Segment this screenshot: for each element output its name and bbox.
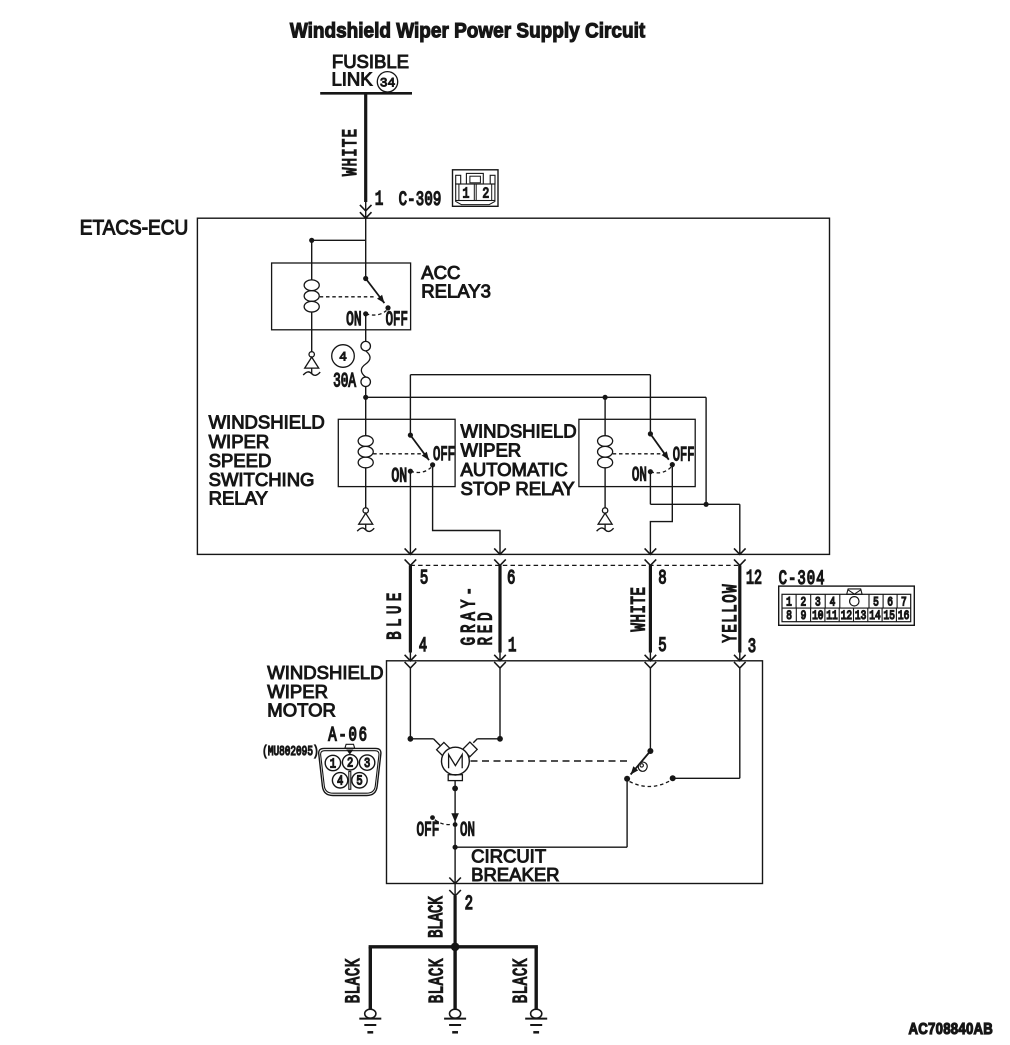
svg-text:14: 14 xyxy=(869,610,881,624)
svg-text:AUTOMATIC: AUTOMATIC xyxy=(461,459,568,480)
connector C-304 dashed line xyxy=(410,564,739,566)
svg-text:OFF: OFF xyxy=(433,445,455,467)
connector arrows A-06 pin 4 xyxy=(405,655,417,661)
junction: yellow net node xyxy=(704,502,709,507)
svg-text:3: 3 xyxy=(748,637,756,659)
ACC relay ON contact xyxy=(363,311,368,316)
svg-text:5: 5 xyxy=(658,636,666,658)
connector arrows A-06 pin 5 xyxy=(645,655,657,661)
svg-text:8: 8 xyxy=(658,568,666,590)
body ground right xyxy=(531,1009,542,1018)
svg-text:3: 3 xyxy=(815,596,821,610)
connector arrows C-304 pin 8 xyxy=(645,548,657,554)
connector arrows C-304 pin 6 xyxy=(494,548,506,554)
svg-text:7: 7 xyxy=(901,596,907,610)
wire: run contact to pin 3 xyxy=(673,777,740,779)
svg-text:RELAY: RELAY xyxy=(209,488,268,509)
wire: right relay coil to ground xyxy=(604,468,606,508)
left relay switch pivot xyxy=(408,433,413,438)
circled 4 (fuse number) xyxy=(332,345,355,368)
right relay switch blade xyxy=(650,434,668,460)
svg-text:9: 9 xyxy=(801,610,807,624)
wire: harness (thick) xyxy=(409,565,412,652)
svg-text:4: 4 xyxy=(830,596,836,610)
ACC relay travel arc xyxy=(366,311,387,316)
svg-text:SPEED: SPEED xyxy=(209,450,272,471)
svg-text:C-304: C-304 xyxy=(779,569,825,591)
svg-text:ON: ON xyxy=(391,466,407,488)
svg-text:WINDSHIELD: WINDSHIELD xyxy=(267,662,383,683)
svg-text:12: 12 xyxy=(746,568,762,590)
wire: into wiper motor connector xyxy=(649,653,651,661)
wire: rail to right relay coil xyxy=(604,397,606,436)
wire: ACC coil to ground xyxy=(311,312,313,352)
svg-text:WIPER: WIPER xyxy=(209,431,270,452)
right relay travel arc xyxy=(650,467,671,473)
connector arrows C-304 pin 12 xyxy=(734,548,746,554)
node: motor terminal right xyxy=(497,736,503,742)
wire: fusible link to C-309 (thick) xyxy=(364,93,367,202)
wire: yellow net horizontal xyxy=(650,503,739,505)
wire: yellow net to pin 12 xyxy=(739,504,741,554)
wire: breaker net to auto-stop contact xyxy=(455,846,627,848)
fusible link bus bar xyxy=(320,92,412,95)
svg-text:34: 34 xyxy=(380,75,396,90)
relay box windshield wiper speed switching relay xyxy=(338,419,455,486)
wire: rail corner down xyxy=(705,397,707,504)
svg-text:C-309: C-309 xyxy=(399,190,442,212)
wire: breaker output to pin 2 xyxy=(454,884,456,897)
svg-text:BLACK: BLACK xyxy=(511,958,533,1003)
wire: ground bus xyxy=(369,945,538,948)
svg-text:2: 2 xyxy=(482,185,489,202)
connector C-309 face icon xyxy=(453,170,499,207)
auto-stop cam follower xyxy=(638,762,647,771)
svg-text:2: 2 xyxy=(465,894,473,916)
wire: harness (thick) xyxy=(649,565,652,652)
node: branch to ACC relay coil xyxy=(309,238,314,243)
circuit breaker moving contact arrow xyxy=(451,813,459,822)
node: below motor xyxy=(452,786,458,792)
motor lower terminal xyxy=(448,775,462,781)
connector arrows A-06 pin 1 xyxy=(494,655,506,661)
left relay actuating dashed link xyxy=(373,453,425,455)
svg-text:6: 6 xyxy=(887,596,893,610)
svg-text:BREAKER: BREAKER xyxy=(471,864,559,885)
svg-text:WINDSHIELD: WINDSHIELD xyxy=(209,412,325,433)
auto-stop switch pivot xyxy=(647,748,653,754)
ACC relay coil xyxy=(304,280,319,291)
connector arrows C-309 xyxy=(360,205,372,211)
fusible link number 34 xyxy=(377,72,397,92)
ACC relay OFF contact xyxy=(385,305,390,310)
wire: pin 1 to motor xyxy=(499,668,501,739)
svg-text:ETACS-ECU: ETACS-ECU xyxy=(80,217,188,240)
svg-text:OFF: OFF xyxy=(673,445,695,467)
wire: left relay OFF jog to pin 6 xyxy=(433,465,500,555)
auto-stop switch run contact B xyxy=(670,775,676,781)
wire: into wiper motor connector xyxy=(499,653,501,661)
svg-text:1: 1 xyxy=(462,185,469,202)
svg-text:WIPER: WIPER xyxy=(461,440,522,461)
ETACS-ECU box xyxy=(197,218,829,554)
svg-text:5: 5 xyxy=(873,596,879,610)
svg-text:2: 2 xyxy=(347,755,353,771)
svg-text:12: 12 xyxy=(841,610,852,624)
relay box ACC RELAY3 xyxy=(272,263,411,330)
svg-text:RED: RED xyxy=(476,612,498,645)
junction: fuse output node xyxy=(363,395,368,400)
left relay travel arc xyxy=(410,468,431,473)
relay box windshield wiper automatic stop relay xyxy=(579,419,695,486)
wire: pivot rail to right relay switch xyxy=(649,375,651,434)
fusible link element (circle-wave-circle) xyxy=(361,341,371,351)
svg-text:11: 11 xyxy=(826,610,838,624)
ground (left relay coil) xyxy=(363,508,368,513)
svg-text:1: 1 xyxy=(330,756,336,772)
windshield wiper motor box xyxy=(387,661,763,884)
wire: pivot rail (top) xyxy=(410,374,650,376)
svg-text:BLACK: BLACK xyxy=(427,958,449,1003)
left relay ON contact xyxy=(408,469,413,474)
svg-text:(MU802095): (MU802095) xyxy=(262,744,318,760)
svg-text:3: 3 xyxy=(364,756,370,772)
right relay ON contact xyxy=(648,469,653,474)
svg-text:1: 1 xyxy=(375,189,383,211)
svg-text:BLACK: BLACK xyxy=(427,896,449,938)
svg-text:5: 5 xyxy=(356,773,362,789)
circuit breaker OFF contact xyxy=(430,815,435,820)
motor M1 (windshield wiper motor) xyxy=(442,747,470,775)
mechanical link motor to auto-stop switch (dashed) xyxy=(471,760,632,762)
svg-text:LINK: LINK xyxy=(332,69,374,90)
svg-text:WHITE: WHITE xyxy=(341,129,363,176)
svg-text:OFF: OFF xyxy=(386,310,408,332)
connector arrows pin 2 xyxy=(449,878,461,884)
svg-text:WHITE: WHITE xyxy=(629,587,651,631)
node: motor terminal left xyxy=(408,736,414,742)
connector A-06 face icon xyxy=(319,748,381,795)
motor brush terminal right xyxy=(463,742,478,757)
svg-text:AC708840AB: AC708840AB xyxy=(909,1021,994,1038)
svg-text:5: 5 xyxy=(420,568,428,590)
wire: supply rail (fuse output) xyxy=(366,396,706,398)
circuit breaker ON contact xyxy=(453,822,458,827)
ACC relay switch pivot xyxy=(363,276,368,281)
svg-text:16: 16 xyxy=(898,610,910,624)
svg-text:30A: 30A xyxy=(333,371,356,393)
wire: left relay ON to pin 5 xyxy=(409,471,411,554)
svg-text:RELAY3: RELAY3 xyxy=(421,280,491,301)
svg-text:STOP RELAY: STOP RELAY xyxy=(461,478,575,499)
left relay OFF contact xyxy=(430,462,435,467)
wire: ground lead (thick) xyxy=(454,896,457,947)
wire: right relay OFF jog to pin 8 xyxy=(650,465,672,555)
wire: into wiper motor connector xyxy=(739,653,741,661)
motor brush terminal left xyxy=(437,742,452,757)
auto-stop switch blade xyxy=(631,751,651,775)
wire: harness (thick) xyxy=(498,565,501,652)
svg-text:ON: ON xyxy=(346,310,362,332)
svg-text:Windshield Wiper Power Supply: Windshield Wiper Power Supply Circuit xyxy=(290,20,646,43)
right relay actuating dashed link xyxy=(613,453,665,455)
right relay coil xyxy=(598,436,613,447)
ground (right relay coil) xyxy=(602,508,607,513)
wire: ACC ON contact down to fusible link 4 xyxy=(365,314,367,342)
svg-text:4: 4 xyxy=(419,636,427,658)
wire: left relay coil to ground xyxy=(365,468,367,508)
svg-text:4: 4 xyxy=(337,773,343,789)
svg-text:4: 4 xyxy=(339,350,347,365)
wire: into ETACS through C-309 xyxy=(365,202,367,279)
right relay switch pivot xyxy=(648,431,653,436)
wire: right relay ON to yellow net xyxy=(649,472,651,505)
left relay switch blade xyxy=(410,435,429,460)
ACC relay actuating dashed link xyxy=(320,296,375,298)
wire: motor to circuit breaker xyxy=(454,781,456,825)
svg-text:ON: ON xyxy=(460,820,475,842)
svg-text:MOTOR: MOTOR xyxy=(267,700,336,721)
wire: breaker to ground lead xyxy=(454,825,456,884)
right relay OFF contact xyxy=(670,462,675,467)
junction: breaker net xyxy=(453,845,458,850)
wire: left ground drop xyxy=(369,947,372,1010)
wire: pin 5 to auto-stop switch xyxy=(649,668,651,751)
wire: node down to ACC coil xyxy=(311,240,313,280)
ACC relay switch blade xyxy=(366,279,385,304)
wire: harness (thick) xyxy=(738,565,741,652)
svg-text:13: 13 xyxy=(855,610,867,624)
left relay coil xyxy=(358,436,373,447)
ground (ACC relay coil) xyxy=(309,352,314,357)
auto-stop travel arc xyxy=(630,781,671,787)
svg-text:BLACK: BLACK xyxy=(344,958,366,1003)
wire: into wiper motor connector xyxy=(409,653,411,661)
svg-text:8: 8 xyxy=(786,610,792,624)
wire: right ground drop xyxy=(535,947,538,1010)
svg-text:1: 1 xyxy=(508,636,516,658)
connector C-304 face icon xyxy=(779,586,915,625)
wire: junction to left relay coil xyxy=(365,397,367,436)
wire: pin 4 to motor xyxy=(409,668,411,739)
auto-stop switch park contact A xyxy=(624,776,630,782)
junction: rail to right relay coil xyxy=(603,395,608,400)
wire: center ground drop xyxy=(453,947,456,1010)
junction: ground splice xyxy=(451,943,460,952)
svg-text:10: 10 xyxy=(812,610,824,624)
body ground left xyxy=(365,1009,376,1018)
connector arrows C-304 pin 5 xyxy=(405,548,417,554)
svg-text:15: 15 xyxy=(884,610,896,624)
connector arrows A-06 pin 3 xyxy=(734,655,746,661)
circuit breaker travel arc xyxy=(435,820,452,825)
wire: fuse to junction xyxy=(365,387,367,398)
body ground center xyxy=(450,1009,461,1018)
svg-text:ON: ON xyxy=(632,466,647,488)
wire: pivot rail to left relay switch xyxy=(409,375,411,435)
svg-text:1: 1 xyxy=(786,596,792,610)
svg-text:2: 2 xyxy=(801,596,807,610)
svg-text:6: 6 xyxy=(507,568,515,590)
svg-text:OFF: OFF xyxy=(417,820,440,842)
svg-text:WINDSHIELD: WINDSHIELD xyxy=(461,420,577,441)
